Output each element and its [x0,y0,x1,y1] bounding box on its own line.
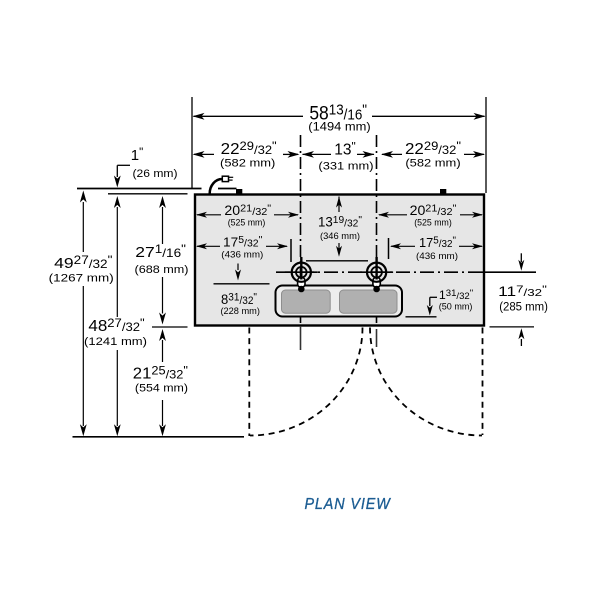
dim 331 mm text [318,160,373,172]
dim 27 1/16 line [159,196,166,325]
plug [222,176,233,181]
dim left 436 mm text [221,249,263,260]
dim right 17 5/32 line [390,243,483,249]
dim right 20 21/32 text [410,203,457,218]
right mounting block [440,189,446,195]
dim 1 31/32 text [439,288,473,302]
left extension line [191,97,193,188]
dim left 17 5/32 line [196,243,288,249]
svg-text:PLAN VIEW: PLAN VIEW [304,496,391,513]
left basin [282,290,331,313]
ref line between faucets [306,260,368,262]
svg-text:(436 mm): (436 mm) [221,249,263,260]
right faucet [360,257,393,292]
counter front edge extension right [490,326,535,328]
svg-text:(346 mm): (346 mm) [320,231,360,242]
dim 13 19/32 arrows [336,197,342,257]
svg-text:(285 mm): (285 mm) [499,302,548,314]
dim right 20 21/32 line [378,212,483,218]
svg-text:(554 mm): (554 mm) [135,383,188,395]
dim 285 mm text [499,302,548,314]
wall line behind counter [77,188,237,190]
caption PLAN VIEW [304,496,391,513]
dim 228 mm text [220,306,260,317]
skirt left dashed vertical [248,328,250,437]
skirt right arc [370,328,482,436]
svg-text:(582 mm): (582 mm) [405,157,461,169]
dim left 22 29/32 text [221,139,277,158]
svg-text:131/32": 131/32" [439,288,473,302]
left faucet centerline stub below counter [300,326,302,350]
skirt right dashed vertical [482,328,484,436]
counter top edge extension to left [108,193,188,195]
tick left 17 5/32 [290,239,292,262]
right basin [340,290,398,313]
right faucet centerline vertical [376,135,378,326]
dim 27 1/16 text [135,243,186,261]
dim right 525 mm text [414,217,452,228]
dim 346 mm text [320,231,360,242]
dim 554 mm text [135,383,188,395]
dim right 436 mm text [416,251,458,262]
skirt left arc [250,328,363,436]
dim 8 31/32 arrow [235,264,241,281]
right faucet centerline stub below counter [376,329,378,347]
right extension line [485,97,487,193]
basin rim top extension line [214,283,270,285]
dim left 582 mm text [220,157,276,169]
dim left 22 29/32 line [193,151,300,158]
counter slab [195,195,484,326]
svg-text:(525 mm): (525 mm) [228,217,266,228]
svg-text:(688 mm): (688 mm) [135,264,189,276]
dim right 582 mm text [405,157,461,169]
svg-text:(331 mm): (331 mm) [318,160,373,172]
dim 1 inch text [131,146,143,164]
dim 13 line [302,151,375,158]
dim left 525 mm text [228,217,266,228]
svg-text:(228 mm): (228 mm) [220,306,260,317]
dim 1241 mm text [84,336,147,348]
dim left 20 21/32 text [224,203,271,218]
svg-text:(1494 mm): (1494 mm) [308,119,370,133]
svg-text:(436 mm): (436 mm) [416,251,458,262]
dim right 17 5/32 text [419,235,456,250]
dim 688 mm text [135,264,189,276]
faucet centerline right extension arrow [518,253,524,270]
svg-text:(1241 mm): (1241 mm) [84,336,147,348]
dim 49 27/32 text [54,254,112,272]
rim bottom extension line [406,316,437,318]
dim 58 13/16 line [193,113,486,120]
dim 49 27/32 line [80,191,87,437]
dim 8 31/32 text [221,291,257,307]
dim 1 31/32 bracket [427,297,437,315]
dim 50 mm text [439,302,473,312]
tick right 17 5/32 [388,238,390,259]
dim 13 text [334,139,355,158]
dim 11 7/32 text [498,284,547,299]
dim 1494 mm text [308,119,370,133]
counter front edge extension left [152,326,188,328]
dim 13 19/32 text [318,214,362,229]
dim 11 7/32 up arrow [518,328,524,346]
dim right 22 29/32 line [381,151,485,158]
faucet centerline horizontal [276,271,536,273]
dim 1267 mm text [49,273,114,285]
svg-text:(525 mm): (525 mm) [414,217,452,228]
dim left 20 21/32 line [196,212,299,218]
dim 21 25/32 line [159,329,166,436]
dim 48 27/32 text [88,316,144,335]
dim 21 25/32 text [133,363,188,382]
dim 26 mm text [133,168,178,180]
dim 1 inch bracket [114,165,130,187]
dim right 22 29/32 text [405,139,461,158]
left faucet [285,257,318,292]
left mounting block [236,189,242,195]
left faucet centerline vertical [300,135,302,326]
floor line [73,436,245,438]
svg-text:(50 mm): (50 mm) [439,302,473,312]
svg-text:(26 mm): (26 mm) [133,168,178,180]
dim left 17 5/32 text [223,234,263,249]
dim 58 13/16 text [309,103,367,125]
svg-text:(1267 mm): (1267 mm) [49,273,114,285]
sink rim [276,286,403,317]
dim 48 27/32 line [114,196,121,436]
svg-text:(582 mm): (582 mm) [220,157,276,169]
power cord [210,179,223,194]
